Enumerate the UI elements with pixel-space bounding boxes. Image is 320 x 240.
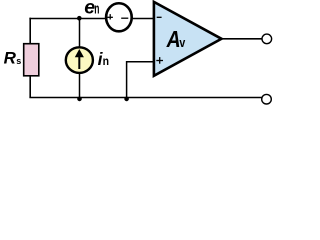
wire: in branch vertical bbox=[79, 19, 81, 98]
wire: op-amp output bbox=[220, 38, 262, 40]
label in bbox=[98, 49, 109, 69]
current source in (noise current) bbox=[66, 47, 93, 73]
wire: op-amp plus input L-shaped bbox=[127, 62, 155, 98]
op-amp plus input sign bbox=[156, 57, 163, 64]
output terminal (top) bbox=[262, 34, 272, 44]
op-amp minus input sign bbox=[157, 16, 162, 18]
wire: top rail right segment to op-amp minus input bbox=[132, 18, 154, 20]
junction node: in branch to bottom rail bbox=[77, 97, 82, 102]
voltage source en (noise voltage) bbox=[106, 3, 132, 31]
svg-text:A: A bbox=[166, 26, 181, 52]
svg-text:n: n bbox=[103, 54, 109, 68]
svg-text:R: R bbox=[4, 49, 17, 68]
wire: left vertical branch through Rs bbox=[29, 18, 31, 98]
op-amp Av triangle bbox=[154, 2, 222, 76]
resistor Rs bbox=[24, 44, 39, 76]
svg-text:n: n bbox=[94, 2, 99, 18]
label Rs bbox=[4, 49, 22, 68]
junction node: in branch to top rail bbox=[77, 16, 82, 21]
output terminal (bottom) bbox=[262, 94, 272, 104]
junction node: plus-input branch to bottom rail bbox=[124, 97, 129, 102]
wire: bottom rail bbox=[29, 97, 261, 99]
label Av bbox=[166, 26, 186, 52]
svg-text:s: s bbox=[16, 56, 21, 66]
svg-text:v: v bbox=[179, 36, 185, 50]
wire: top rail left segment bbox=[29, 18, 105, 20]
label en bbox=[84, 0, 99, 18]
